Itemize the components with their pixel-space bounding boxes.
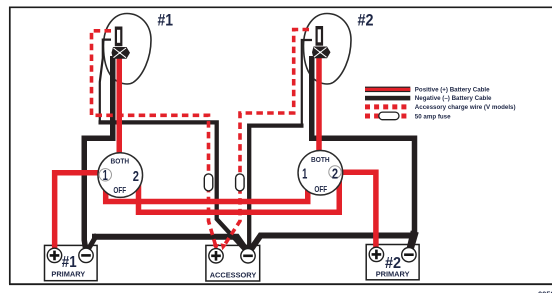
svg-text:PRIMARY: PRIMARY (51, 269, 85, 278)
positive cable motor #1 to switch 1 (117, 56, 123, 162)
motor #2 thin wire (302, 40, 312, 126)
red jumper upper: sw1 post1 to sw2 post1 (106, 176, 308, 201)
engine block motor #2 (316, 26, 324, 46)
svg-text:50 amp fuse: 50 amp fuse (415, 113, 451, 120)
svg-text:2: 2 (332, 166, 338, 182)
motor #1 accessory ground run (99, 122, 245, 249)
connector motor #2 (312, 47, 331, 59)
battery box ACCESSORY (206, 245, 260, 281)
battery box #1 PRIMARY (45, 245, 98, 280)
positive cable motor #2 to switch 2 (316, 56, 322, 160)
svg-text:BOTH: BOTH (111, 157, 130, 166)
svg-text:OFF: OFF (113, 185, 126, 195)
accessory positive terminal (209, 249, 223, 263)
svg-text:00524: 00524 (538, 290, 552, 293)
battery box #2 PRIMARY (366, 245, 419, 280)
engine block motor #1 (115, 27, 123, 47)
legend negative cable sample (365, 96, 410, 101)
legend fuse sample (365, 114, 408, 119)
motor #1 thin wire (100, 40, 111, 123)
motor #2 accessory ground run (249, 126, 303, 250)
connector motor #1 (112, 47, 131, 59)
svg-text:Negative (–) Battery Cable: Negative (–) Battery Cable (415, 95, 492, 102)
neg cable into battery2 post (V left stroke) (408, 231, 413, 251)
fuse 1 (204, 174, 213, 191)
svg-text:Positive (+) Battery Cable: Positive (+) Battery Cable (415, 86, 490, 93)
svg-text:#2: #2 (358, 11, 374, 29)
svg-text:OFF: OFF (314, 184, 327, 194)
red wire switch1 post1 to battery1 positive (55, 173, 106, 252)
svg-text:PRIMARY: PRIMARY (376, 269, 410, 278)
red jumper lower: sw1 post2 to sw2 post2 (139, 176, 340, 212)
ground bus accessory to battery2 (251, 236, 415, 251)
legend positive cable sample (365, 87, 410, 93)
motor #2 cowling oval (304, 14, 352, 84)
negative cable motor #2 (312, 56, 415, 233)
svg-text:ACCESSORY: ACCESSORY (210, 271, 257, 280)
arrowhead right into accessory + (221, 243, 227, 250)
svg-text:1: 1 (302, 167, 307, 183)
legend accessory wire sample (365, 104, 408, 109)
accessory charge wire motor #1 (dashed) (92, 31, 216, 246)
neg cable into battery2 post (V right stroke) (411, 232, 417, 251)
accessory negative terminal (241, 249, 255, 263)
motor #1 cowling oval (104, 14, 152, 84)
battery1 negative terminal (79, 248, 93, 262)
battery2 negative terminal (402, 248, 416, 262)
battery2 positive terminal (369, 247, 383, 261)
red wire switch2 post2 to battery2 positive (334, 172, 376, 252)
battery1 positive terminal (47, 248, 61, 262)
battery switch 2 (298, 150, 343, 195)
arrowhead left into accessory + (212, 244, 219, 251)
ground bus battery1 to accessory (92, 237, 246, 250)
svg-text:#1: #1 (158, 11, 174, 29)
ground bus left end into battery1 neg (88, 235, 98, 251)
svg-text:2: 2 (133, 169, 139, 185)
fuse 2 (236, 174, 245, 191)
negative cable motor #1 (84, 56, 113, 251)
accessory charge wire motor #2 (dashed) (224, 30, 309, 247)
battery switch 1 (98, 153, 143, 198)
svg-text:1: 1 (103, 168, 108, 184)
svg-text:Accessory charge wire (V model: Accessory charge wire (V models) (415, 104, 516, 111)
svg-text:BOTH: BOTH (311, 155, 330, 164)
